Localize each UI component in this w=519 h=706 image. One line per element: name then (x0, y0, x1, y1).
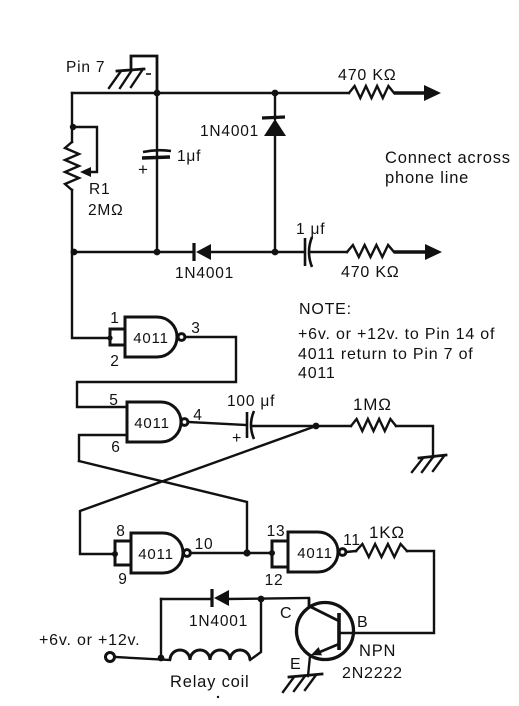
wire gate1 output to gate2 pin5 (77, 337, 236, 407)
svg-text:1MΩ: 1MΩ (353, 395, 392, 414)
pin 4 label (193, 407, 202, 424)
resistor 470K (top) (349, 86, 394, 98)
svg-text:1KΩ: 1KΩ (369, 523, 405, 542)
wire ground loop to top node (131, 56, 157, 93)
speck (217, 696, 219, 698)
svg-text:10: 10 (195, 536, 214, 553)
svg-text:4011: 4011 (138, 546, 173, 563)
label 1MΩ (353, 395, 392, 414)
op NAND gate U1C 4011 (131, 533, 190, 573)
wire 1M to ground (396, 426, 433, 457)
junction second rail / D1 (272, 249, 279, 256)
wire top rail y=93 (72, 92, 349, 94)
svg-text:E: E (290, 656, 301, 673)
diode D3 1N4001 (flyback, pointing left) (212, 589, 229, 607)
label R1 2MΩ (88, 181, 124, 219)
svg-text:+: + (138, 160, 149, 179)
svg-text:1μf: 1μf (177, 148, 201, 165)
gate3 input box pins 8,9 (112, 541, 131, 565)
svg-text:C: C (280, 605, 292, 622)
svg-text:phone line: phone line (385, 169, 469, 187)
svg-text:12: 12 (265, 572, 284, 589)
label 1 µf (series cap) (296, 221, 325, 238)
wire relay top right (227, 598, 309, 599)
svg-text:4011: 4011 (297, 545, 332, 562)
junction gate3-gate4 wire (243, 549, 250, 556)
svg-text:+6v. or +12v.: +6v. or +12v. (39, 632, 140, 649)
svg-text:100 μf: 100 μf (227, 393, 275, 410)
label 470 KΩ (second) (341, 264, 400, 281)
svg-text:1N4001: 1N4001 (175, 265, 234, 282)
pin 9 label (118, 571, 127, 588)
wire gate4 output to resistor (346, 551, 356, 552)
svg-text:1N4001: 1N4001 (200, 123, 259, 140)
label Connect across phone line (385, 149, 511, 187)
label Pin 7 (66, 59, 105, 76)
wire left rail lower (71, 190, 73, 252)
junction second rail / C1 (154, 249, 161, 256)
junction relay left (158, 655, 165, 662)
wire cross diagonal B (node to gate3 input) (80, 426, 316, 554)
wire gate3 output to gate4 input (190, 552, 272, 554)
junction R1 wiper tap (70, 124, 76, 130)
resistor 1MΩ (351, 419, 396, 431)
gate1 input box pins 1,2 (107, 329, 125, 345)
pin 2 label (110, 353, 119, 370)
svg-text:1N4001: 1N4001 (189, 613, 248, 630)
pin 10 label (195, 536, 214, 553)
label + of C3 (232, 430, 242, 447)
wire 1K to transistor base (340, 551, 434, 633)
label 1N4001 (flyback) (189, 613, 248, 630)
svg-text:2N2222: 2N2222 (342, 665, 403, 682)
svg-text:470 KΩ: 470 KΩ (338, 67, 397, 84)
label 1KΩ (369, 523, 405, 542)
svg-text:2MΩ: 2MΩ (88, 202, 124, 219)
diode D1 1N4001 (vertical) (262, 93, 286, 252)
label B (357, 614, 368, 631)
junction second rail left (71, 249, 78, 256)
svg-text:4011 return to Pin 7 of: 4011 return to Pin 7 of (298, 346, 474, 363)
wire relay right vertical (250, 599, 261, 660)
wire terminal to coil (115, 657, 170, 660)
wire cross diagonal A (pin6 to gate4 input) (79, 461, 247, 553)
pin 5 label (109, 392, 118, 409)
svg-text:4011: 4011 (134, 415, 169, 432)
diode D2 1N4001 (series, pointing left) (194, 243, 211, 261)
wire gate2 pin6 input (79, 435, 127, 461)
label E (290, 656, 301, 673)
capacitor C2 1µf (series) (305, 237, 312, 267)
label 1N4001 (top diode) (200, 123, 259, 140)
wire second rail right (311, 251, 347, 253)
wire second rail mid (211, 251, 304, 253)
capacitor C1 1µf branch wire (156, 93, 158, 252)
pin 8 label (116, 523, 125, 540)
pin 1 label (110, 310, 119, 327)
ground G1 (top, pin7) (109, 69, 151, 88)
svg-text:1 μf: 1 μf (296, 221, 325, 238)
svg-text:NPN: NPN (359, 642, 396, 660)
svg-text:+6v. or +12v. to Pin 14 of: +6v. or +12v. to Pin 14 of (298, 326, 495, 343)
op NAND gate U1B 4011 (127, 402, 188, 442)
svg-text:5: 5 (109, 392, 118, 409)
potentiometer R1 2MΩ (65, 127, 97, 190)
resistor 1KΩ (356, 544, 407, 557)
svg-text:470 KΩ: 470 KΩ (341, 264, 400, 281)
svg-text:13: 13 (267, 523, 286, 540)
junction top rail / C1 (154, 90, 161, 97)
op NAND gate U1A 4011 (125, 317, 185, 357)
capacitor C3 100µf (247, 411, 254, 439)
svg-text:8: 8 (116, 523, 125, 540)
label NPN 2N2222 (342, 642, 403, 682)
svg-text:+: + (232, 430, 242, 447)
label +6v. or +12v. (39, 632, 140, 649)
svg-text:6: 6 (111, 439, 120, 456)
arrow to phone line (top) (394, 85, 441, 101)
wire gate2 output to cap (188, 422, 246, 425)
junction relay/collector (258, 596, 265, 603)
ground G2 (1MΩ) (412, 455, 446, 472)
wire emitter to ground (308, 656, 310, 676)
wire relay top left (161, 598, 211, 600)
resistor 470K (second) (347, 245, 394, 257)
label 470 KΩ (top) (338, 67, 397, 84)
arrow to phone line (second) (394, 244, 442, 260)
svg-text:Connect across: Connect across (385, 149, 511, 167)
pin 11 label (343, 532, 361, 549)
junction top rail / D1 (272, 90, 279, 97)
op NAND gate U1D 4011 (288, 532, 346, 572)
label + of C1 (138, 160, 149, 179)
svg-text:NOTE:: NOTE: (299, 301, 352, 318)
label C (280, 605, 292, 622)
pin 6 label (111, 439, 120, 456)
wire cap to 1M resistor (253, 425, 351, 427)
svg-text:4011: 4011 (133, 330, 168, 347)
pin 12 label (265, 572, 284, 589)
svg-text:11: 11 (343, 532, 361, 549)
wire left rail upper (71, 93, 73, 142)
svg-text:B: B (357, 614, 368, 631)
gate4 input box pins 13,12 (269, 541, 288, 567)
svg-text:Pin 7: Pin 7 (66, 59, 105, 76)
svg-text:2: 2 (110, 353, 119, 370)
transistor Q1 body (297, 598, 354, 660)
relay coil (170, 650, 250, 660)
svg-text:Relay coil: Relay coil (170, 673, 250, 691)
label NOTE block (298, 301, 495, 382)
label Relay coil (170, 673, 250, 691)
capacitor C1 plates (142, 150, 171, 158)
wire second rail y=252 (72, 251, 193, 253)
svg-text:9: 9 (118, 571, 127, 588)
label 1µf of C1 (177, 148, 201, 165)
svg-text:R1: R1 (89, 181, 110, 198)
wire relay left vertical (160, 599, 162, 658)
terminal input (106, 653, 115, 662)
pin 13 label (267, 523, 286, 540)
ground G3 (emitter) (283, 674, 322, 692)
junction at 100µf output node (313, 423, 320, 430)
label 100 µf (227, 393, 275, 410)
svg-text:1: 1 (110, 310, 119, 327)
svg-text:4011: 4011 (298, 365, 336, 382)
pin 3 label (191, 320, 200, 337)
wire to gate1 input (72, 252, 110, 338)
svg-text:3: 3 (191, 320, 200, 337)
label 1N4001 (series diode) (175, 265, 234, 282)
